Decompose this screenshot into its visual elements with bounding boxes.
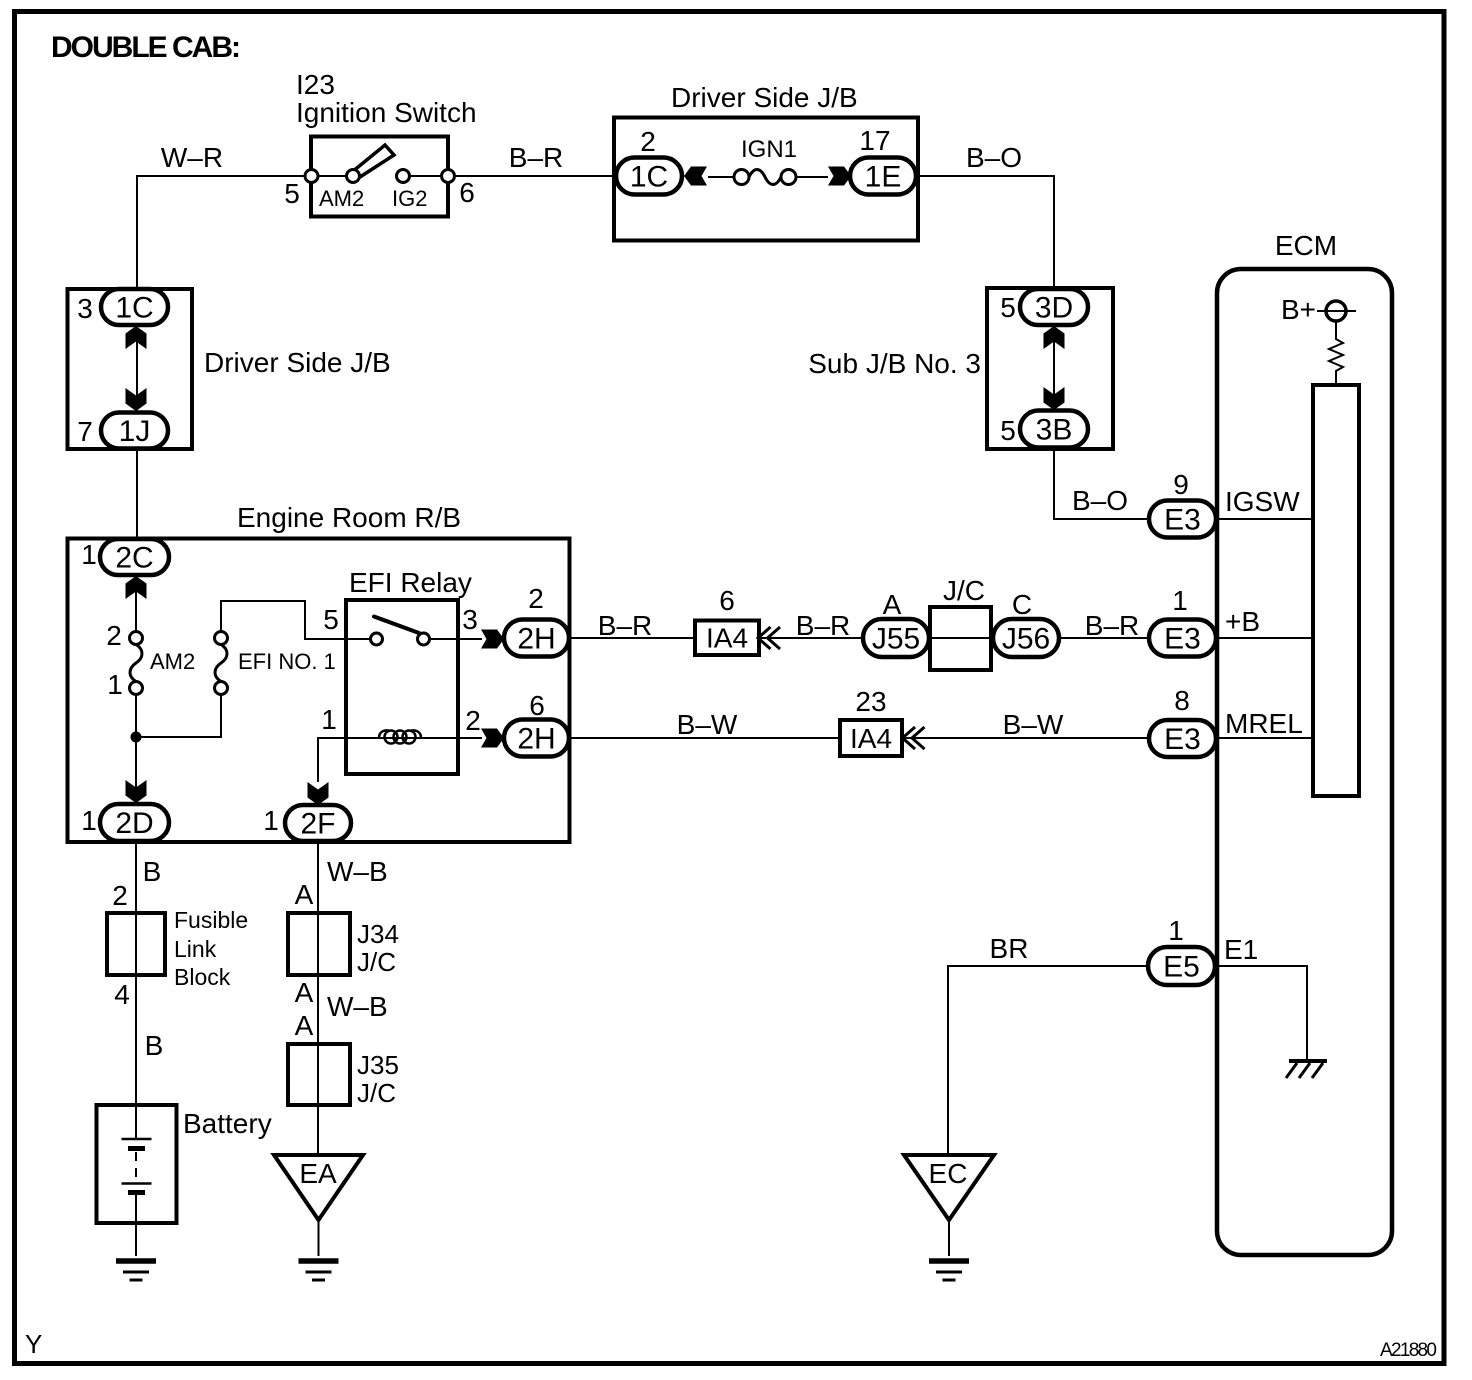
Engine Room R/B box — [68, 539, 570, 843]
svg-text:E3: E3 — [1164, 504, 1201, 537]
svg-text:EFI Relay: EFI Relay — [349, 567, 472, 598]
svg-text:9: 9 — [1173, 469, 1189, 500]
svg-text:4: 4 — [114, 979, 130, 1010]
arrow up to 1C — [126, 326, 147, 349]
ECM internal block — [1313, 385, 1359, 796]
svg-text:Link: Link — [174, 936, 217, 962]
ground symbol EA — [299, 1261, 339, 1280]
wire junction to fuse EFI NO.1 — [136, 694, 221, 737]
svg-text:6: 6 — [529, 690, 545, 721]
chassis ground inside ECM — [1286, 1061, 1327, 1078]
junction dot — [131, 732, 142, 743]
arrow into 1C — [684, 167, 707, 186]
svg-text:BR: BR — [990, 933, 1029, 964]
svg-text:Block: Block — [174, 964, 231, 990]
wire BR from EC ground to E5 — [948, 966, 1148, 1155]
arrow down to 1J — [126, 388, 147, 411]
svg-text:J56: J56 — [1002, 623, 1050, 656]
svg-text:6: 6 — [459, 177, 475, 208]
contact IG2 — [397, 170, 410, 183]
svg-text:1: 1 — [81, 539, 97, 570]
svg-text:IGSW: IGSW — [1225, 486, 1300, 517]
svg-text:Fusible: Fusible — [174, 907, 248, 933]
svg-text:5: 5 — [1000, 292, 1016, 323]
svg-text:W–B: W–B — [327, 991, 388, 1022]
ignition switch I23 box — [311, 137, 448, 217]
connector J55 — [863, 619, 929, 657]
svg-text:J/C: J/C — [357, 947, 396, 977]
EFI relay box — [346, 600, 458, 774]
svg-text:MREL: MREL — [1225, 708, 1303, 739]
wire EA to ground — [318, 1220, 320, 1256]
svg-text:B–R: B–R — [1085, 610, 1139, 641]
terminal 6 — [442, 170, 455, 183]
svg-text:EC: EC — [929, 1158, 968, 1189]
svg-text:2: 2 — [112, 880, 128, 911]
svg-text:1: 1 — [1172, 585, 1188, 616]
svg-text:B–R: B–R — [509, 142, 563, 173]
ground EC triangle — [904, 1155, 994, 1220]
svg-text:Ignition Switch: Ignition Switch — [296, 97, 477, 128]
relay coil wire — [346, 737, 458, 739]
svg-text:J35: J35 — [357, 1050, 399, 1080]
battery plates — [122, 1138, 152, 1141]
svg-text:W–R: W–R — [161, 142, 223, 173]
wire through J/C — [929, 637, 993, 639]
svg-text:Driver Side J/B: Driver Side J/B — [204, 347, 391, 378]
terminal 5 — [305, 170, 318, 183]
relay switch blade — [374, 617, 419, 634]
connector IA4 — [695, 621, 759, 656]
svg-text:2H: 2H — [517, 623, 555, 656]
contact AM2 — [347, 170, 360, 183]
wire IGSW to block — [1216, 518, 1313, 520]
svg-text:1: 1 — [263, 805, 279, 836]
svg-text:B–O: B–O — [1072, 485, 1128, 516]
svg-text:IA4: IA4 — [850, 723, 892, 754]
Driver Side J/B (top) box — [614, 118, 918, 241]
connector E3 pin 8 MREL — [1149, 720, 1216, 757]
wire terminal 5 to AM2 contact — [318, 175, 346, 177]
svg-text:7: 7 — [77, 416, 93, 447]
svg-text:E3: E3 — [1164, 623, 1201, 656]
ignition switch lever — [352, 145, 394, 177]
wire relay pin 2 to 2H — [458, 737, 482, 739]
svg-text:IGN1: IGN1 — [741, 136, 797, 163]
svg-text:1: 1 — [81, 805, 97, 836]
svg-text:2: 2 — [106, 620, 122, 651]
wire EC to ground — [948, 1220, 950, 1256]
svg-text:1J: 1J — [119, 415, 151, 448]
connector 1C (Driver Side J/B top) — [616, 158, 682, 195]
wire W-R from ignition switch to left Driver Side J/B 1C — [137, 176, 305, 289]
J/C box — [930, 607, 991, 670]
svg-text:6: 6 — [719, 585, 735, 616]
wire between 3D and 3B — [1053, 325, 1055, 412]
svg-text:8: 8 — [1174, 685, 1190, 716]
ECM box — [1217, 269, 1392, 1255]
wire between 1C and 1J — [136, 325, 138, 412]
svg-text:2: 2 — [528, 583, 544, 614]
svg-text:Sub J/B No. 3: Sub J/B No. 3 — [808, 348, 981, 379]
wire battery to ground — [135, 1195, 137, 1256]
svg-text:J/C: J/C — [357, 1078, 396, 1108]
wire relay pin 3 to 2H — [458, 638, 482, 640]
svg-text:B–O: B–O — [966, 142, 1022, 173]
svg-text:IG2: IG2 — [392, 186, 427, 211]
wire relay pin 1 to 2F — [318, 738, 346, 782]
wire 1J down to 2C — [136, 448, 138, 539]
wire B-R 2H to IA4 — [569, 637, 695, 639]
relay switch wires — [346, 638, 458, 640]
svg-text:17: 17 — [859, 125, 890, 156]
ground symbol EC — [929, 1261, 969, 1280]
svg-text:1E: 1E — [865, 161, 902, 194]
svg-text:5: 5 — [284, 178, 300, 209]
wire B-R J56 to E3 — [1059, 637, 1149, 639]
fusible link block box — [107, 913, 165, 975]
svg-text:A: A — [295, 1010, 314, 1041]
svg-text:Y: Y — [25, 1329, 42, 1359]
svg-text:5: 5 — [1000, 415, 1016, 446]
svg-text:3: 3 — [77, 293, 93, 324]
fuse AM2 — [130, 632, 143, 645]
svg-text:J55: J55 — [872, 623, 920, 656]
connector 2C — [100, 539, 169, 575]
arrow down to 2F — [308, 782, 329, 805]
arrow into 2H bottom — [481, 729, 504, 748]
svg-text:I23: I23 — [296, 69, 335, 100]
svg-text:2F: 2F — [300, 808, 335, 841]
svg-text:B–R: B–R — [598, 610, 652, 641]
svg-text:5: 5 — [323, 604, 339, 635]
svg-text:+B: +B — [1225, 606, 1260, 637]
svg-text:2: 2 — [465, 705, 481, 736]
svg-text:2H: 2H — [517, 723, 555, 756]
connector E3 pin 9 IGSW — [1149, 501, 1216, 538]
Sub J/B No. 3 box — [987, 288, 1113, 449]
svg-text:1C: 1C — [630, 161, 668, 194]
connector 2D — [100, 804, 169, 841]
wire MREL to block — [1216, 737, 1313, 739]
ground EA triangle — [274, 1155, 363, 1220]
battery B1 box — [97, 1105, 177, 1223]
svg-text:E1: E1 — [1224, 934, 1258, 965]
junction J34 box — [288, 913, 350, 975]
svg-text:Engine Room R/B: Engine Room R/B — [237, 502, 461, 533]
wire B-W 2H to IA4 — [569, 737, 840, 739]
svg-text:DOUBLE CAB:: DOUBLE CAB: — [51, 31, 241, 64]
svg-text:Battery: Battery — [183, 1108, 272, 1139]
fuse IGN1 — [734, 170, 749, 185]
svg-text:A: A — [295, 977, 314, 1008]
svg-text:1: 1 — [321, 704, 337, 735]
svg-text:E3: E3 — [1164, 723, 1201, 756]
svg-text:A: A — [295, 879, 314, 910]
svg-text:W–B: W–B — [327, 856, 388, 887]
Driver Side J/B (left) box — [68, 289, 193, 449]
arrow up to 2C — [126, 576, 147, 599]
svg-text:J34: J34 — [357, 919, 399, 949]
connector 3B — [1020, 411, 1088, 448]
connector 1J — [101, 413, 168, 449]
svg-text:ECM: ECM — [1275, 230, 1337, 261]
svg-text:1: 1 — [1168, 915, 1184, 946]
arrow into 2H top — [481, 630, 504, 649]
svg-text:EA: EA — [299, 1158, 337, 1189]
wire B-O from 3B to ECM E3 IGSW — [1054, 447, 1149, 519]
svg-text:EFI NO. 1: EFI NO. 1 — [238, 649, 336, 674]
connector 1E — [850, 158, 916, 195]
svg-text:C: C — [1012, 589, 1032, 620]
arrow down to 2D — [126, 780, 147, 803]
svg-text:3B: 3B — [1036, 414, 1073, 447]
svg-text:2D: 2D — [115, 807, 153, 840]
svg-text:AM2: AM2 — [319, 186, 364, 211]
svg-text:AM2: AM2 — [150, 649, 195, 674]
resistor inside ECM — [1329, 322, 1343, 386]
wire fuse leads inside J/B — [708, 176, 828, 178]
wire E1 from E5 into ECM to chassis ground — [1215, 966, 1307, 1061]
svg-text:A: A — [883, 589, 902, 620]
svg-text:B: B — [145, 1030, 164, 1061]
svg-text:3D: 3D — [1035, 292, 1073, 325]
wire B-O from 1E down to Sub J/B No.3 3D — [916, 176, 1054, 290]
double chevron at IA4 — [758, 627, 771, 649]
double chevron at IA4 — [903, 727, 916, 749]
connector 2H bottom — [504, 720, 569, 757]
connector 3D — [1020, 289, 1088, 325]
arrow into 1E — [828, 167, 851, 186]
wire 2F to J34 J35 EA — [317, 841, 319, 1155]
wire B-R ignition switch to Driver Side J/B — [454, 175, 616, 177]
svg-text:Driver Side J/B: Driver Side J/B — [671, 82, 858, 113]
svg-text:B–R: B–R — [796, 610, 850, 641]
wire AM2 to junction to 2D — [135, 694, 137, 800]
wire +B to block — [1216, 637, 1313, 639]
connector E3 pin 1 +B — [1149, 620, 1216, 657]
connector 2F — [285, 805, 351, 841]
svg-text:2: 2 — [640, 126, 656, 157]
svg-text:E5: E5 — [1163, 951, 1200, 984]
connector 2H top — [504, 620, 569, 657]
svg-text:3: 3 — [462, 604, 478, 635]
svg-text:1C: 1C — [115, 292, 153, 325]
svg-text:A21880: A21880 — [1380, 1340, 1437, 1361]
wire IG2 contact to terminal 6 — [410, 175, 441, 177]
relay coil — [385, 731, 398, 744]
connector E5 pin 1 — [1148, 947, 1215, 985]
wire 2D to battery — [135, 841, 137, 1139]
svg-text:2C: 2C — [115, 542, 153, 575]
wire B-R IA4 to J55 — [759, 637, 863, 639]
svg-text:23: 23 — [855, 686, 886, 717]
svg-text:B: B — [143, 856, 162, 887]
fuse EFI NO. 1 — [215, 632, 228, 645]
svg-text:B–W: B–W — [677, 709, 738, 740]
connector J56 — [993, 619, 1059, 657]
ground symbol battery — [116, 1261, 156, 1280]
connector IA4 (23) — [840, 720, 902, 756]
svg-text:B+: B+ — [1281, 294, 1316, 325]
wire 2C to fuse AM2 — [135, 575, 137, 632]
arrow up to 3D — [1044, 326, 1065, 349]
svg-text:J/C: J/C — [943, 575, 985, 606]
relay switch contacts — [371, 633, 383, 645]
connector 1C (left J/B) — [101, 289, 168, 325]
arrow down to 3B — [1044, 387, 1065, 410]
wire EFI NO.1 to relay pin 5 — [221, 601, 346, 639]
junction J35 box — [288, 1044, 350, 1105]
svg-text:B–W: B–W — [1003, 709, 1064, 740]
svg-text:1: 1 — [107, 669, 123, 700]
wire B-W IA4 to E3 — [903, 737, 1149, 739]
svg-text:IA4: IA4 — [706, 623, 748, 654]
